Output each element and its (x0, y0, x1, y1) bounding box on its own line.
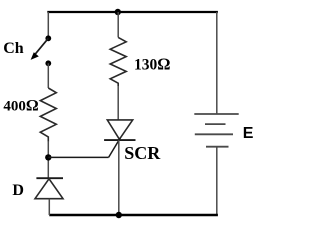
svg-text:130Ω: 130Ω (134, 55, 170, 74)
svg-text:Ch: Ch (3, 40, 24, 57)
svg-text:400Ω: 400Ω (3, 98, 39, 115)
svg-text:SCR: SCR (124, 143, 161, 163)
svg-text:D: D (12, 182, 24, 199)
svg-text:E: E (243, 125, 254, 142)
